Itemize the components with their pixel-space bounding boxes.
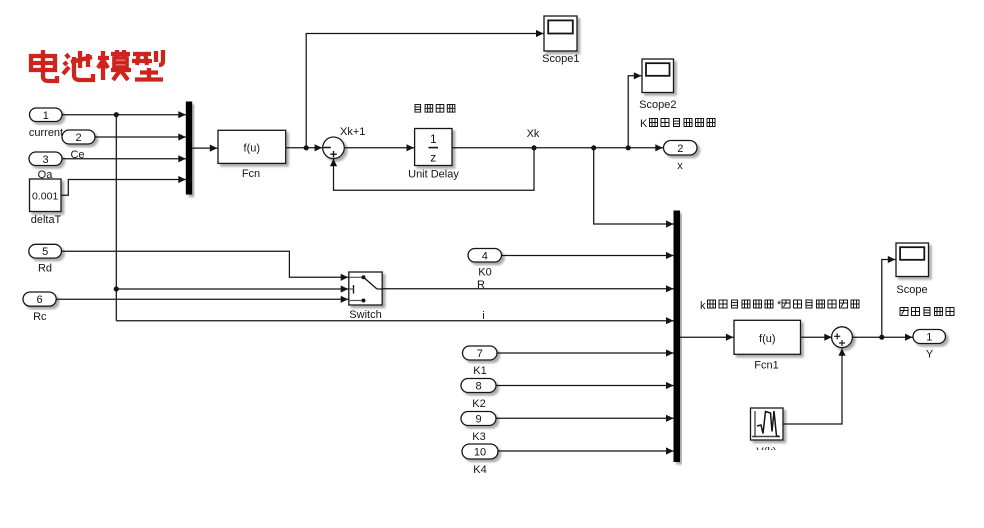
scope Scope [896, 243, 929, 277]
wire port1 to Mux1 [62, 114, 187, 116]
svg-text:Xk: Xk [527, 128, 540, 140]
wire port8 K2 to Mux2 [496, 385, 674, 387]
junction to Mux2 branch [591, 145, 596, 150]
wire port6 Rc to Switch input3 [56, 298, 349, 300]
wire to Switch control input [116, 288, 348, 290]
Fcn block f(u) [218, 130, 286, 163]
svg-text:K4: K4 [473, 464, 486, 476]
svg-text:Fcn1: Fcn1 [754, 360, 778, 372]
input port 10 (K4) [462, 444, 498, 459]
sum block Sum2 (++) [832, 327, 853, 348]
svg-text:7: 7 [477, 348, 483, 360]
svg-text:R: R [477, 279, 485, 291]
svg-text:Scope1: Scope1 [542, 53, 579, 65]
svg-text:deltaT: deltaT [31, 214, 62, 226]
scope Scope2 [642, 59, 674, 93]
wire Sum2 to outport Y [852, 336, 913, 338]
svg-text:i: i [482, 310, 484, 322]
svg-text:k: k [700, 300, 706, 312]
svg-text:5: 5 [42, 246, 48, 258]
svg-text:Switch: Switch [349, 309, 381, 321]
svg-text:1: 1 [43, 110, 49, 122]
svg-text:3: 3 [42, 154, 48, 166]
input port 6 (Rc) [23, 292, 56, 306]
wire port2 to Mux1 [95, 136, 187, 138]
wire Sum1 to Unit Delay (Xk+1) [344, 147, 414, 149]
wire current branch down (vertical) [115, 115, 117, 321]
svg-text:4: 4 [482, 250, 488, 262]
sum block Sum1 (-+) [323, 137, 345, 159]
input port 3 (Qa) [29, 152, 62, 166]
svg-text:6: 6 [37, 294, 43, 306]
wire current to Mux2 (i) [116, 320, 674, 322]
svg-text:K3: K3 [472, 431, 485, 443]
wire Fcn1 to Sum2 [801, 336, 832, 338]
input port 5 (Rd) [29, 244, 62, 258]
svg-text:Fcn: Fcn [242, 168, 260, 180]
input port 4 (K0) [468, 249, 502, 263]
input port 1 (current) [30, 108, 63, 122]
input port 2 (Ce) [62, 130, 95, 144]
constant block deltaT (0.001) [30, 179, 62, 212]
svg-text:1: 1 [430, 132, 437, 146]
junction to Scope2 branch [626, 145, 631, 150]
wire V(k) to Sum2 bottom [783, 349, 842, 425]
svg-text:Rd: Rd [38, 263, 52, 275]
switch block [349, 272, 382, 305]
wire port3 to Mux1 [62, 158, 187, 160]
svg-text:Scope: Scope [896, 284, 927, 296]
wire feedback to Sum1 + input [334, 148, 535, 191]
wire port5 Rd to Switch input1 [61, 251, 349, 277]
svg-text:K: K [640, 118, 648, 130]
svg-text:Scope2: Scope2 [639, 99, 676, 111]
svg-text:Xk+1: Xk+1 [340, 126, 365, 138]
unit delay block 1/z [415, 129, 452, 166]
junction node on current wire [114, 112, 119, 117]
svg-text:2: 2 [75, 132, 81, 144]
svg-text:z: z [430, 151, 436, 165]
svg-text:K2: K2 [472, 398, 485, 410]
wire port4 K0 to Mux2 [502, 255, 675, 257]
input port 9 (K3) [461, 412, 496, 426]
svg-text:0.001: 0.001 [32, 191, 58, 203]
wire Mux2 to Fcn1 [680, 336, 734, 338]
svg-text:10: 10 [474, 447, 486, 459]
input port 7 (K1) [463, 346, 498, 360]
Fcn1 block f(u) [734, 320, 801, 354]
wire Switch to Mux2 (R) [382, 288, 674, 290]
output port 1 (Y) [913, 330, 946, 344]
svg-text:K0: K0 [478, 267, 491, 279]
svg-text:f(u): f(u) [759, 333, 776, 345]
svg-text:8: 8 [475, 381, 481, 393]
svg-text:K1: K1 [473, 365, 486, 377]
svg-text:x: x [677, 160, 683, 172]
title 电池模型 [41, 50, 45, 72]
label 系统测量值 [900, 308, 908, 316]
input port 8 (K2) [461, 379, 496, 393]
svg-text:9: 9 [475, 414, 481, 426]
svg-text:2: 2 [677, 143, 683, 155]
wire port9 K3 to Mux2 [496, 417, 674, 419]
svg-text:Unit Delay: Unit Delay [408, 169, 459, 181]
mux Mux2 (big, 8 inputs) [674, 211, 681, 463]
junction feedback [531, 145, 536, 150]
output port 2 (x) [664, 141, 698, 156]
svg-text:current: current [29, 127, 63, 139]
svg-text:Rc: Rc [33, 311, 47, 323]
source block V(k) [751, 408, 784, 440]
svg-text:Y: Y [926, 349, 934, 361]
wire branch up to Scope1 [306, 34, 543, 148]
junction to switch control [114, 286, 119, 291]
wire Fcn to Sum1 [286, 147, 322, 149]
label 单位延迟 [415, 105, 421, 113]
wire Unit Delay to outport2 (Xk) [452, 147, 663, 149]
wire port10 K4 to Mux2 [498, 450, 674, 452]
wire Mux1 to Fcn [192, 147, 218, 149]
wire branch up to Scope [882, 260, 896, 338]
svg-text:*: * [777, 299, 782, 311]
wire deltaT to Mux1 [61, 180, 187, 196]
junction to Scope branch [879, 335, 884, 340]
scope Scope1 [544, 16, 577, 51]
svg-text:1: 1 [926, 332, 932, 344]
mux Mux1 (small, 4 inputs) [186, 102, 192, 195]
junction to Scope1 branch [304, 145, 309, 150]
svg-text:f(u): f(u) [244, 143, 261, 155]
wire branch down to Mux2 input1 [594, 148, 674, 224]
wire branch up to Scope2 [628, 76, 641, 148]
wire port7 K1 to Mux2 [497, 352, 674, 354]
